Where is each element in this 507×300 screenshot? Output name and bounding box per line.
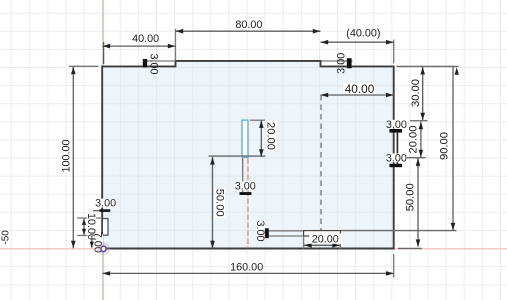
svg-text:40.00: 40.00	[132, 33, 159, 45]
svg-text:3.00: 3.00	[254, 220, 266, 241]
dim 50.00 right: dimension line and arrows	[417, 158, 419, 247]
Y axis (green) upper segment	[102, 0, 104, 66]
dim 90.00: dimension line and arrows	[452, 67, 454, 231]
dim 3.00 bottom hole height: text rotated with mask	[256, 221, 264, 241]
profile filled region	[102, 61, 394, 249]
svg-text:30.00: 30.00	[410, 79, 422, 107]
dim 40.00 inner right: dimension line and arrows	[321, 94, 394, 96]
svg-text:-50: -50	[1, 230, 12, 245]
svg-text:90.00: 90.00	[439, 132, 451, 160]
dim 40.00 top-left: extension lines	[103, 42, 105, 64]
dim 160.00: extension line right	[393, 254, 395, 278]
dim 7.00 below notch: text rotated with mask	[95, 235, 103, 252]
svg-text:3.00: 3.00	[147, 53, 159, 74]
dim 3.00 left step: extension line	[143, 60, 175, 62]
svg-text:20.00: 20.00	[408, 126, 420, 154]
dim 3.00 bottom hole height: tick bar	[265, 228, 269, 238]
dim 50.00 right: extension line	[398, 247, 422, 249]
dim 3.00 notch width: text with mask	[96, 199, 115, 208]
dim 30.00: dimension line and arrows	[422, 67, 424, 121]
svg-text:20.00: 20.00	[265, 122, 277, 150]
dim 100.00 left: extension line	[69, 65, 99, 67]
svg-text:3.00: 3.00	[235, 181, 256, 193]
svg-text:3.00: 3.00	[95, 197, 116, 209]
dim 3.00 right step: tick bar	[347, 58, 352, 68]
dim 3.00 notch width: dimension line and tick bar	[93, 210, 100, 212]
svg-text:3.00: 3.00	[386, 119, 407, 131]
dim 20.00 slot height: extension lines	[250, 119, 265, 121]
dim 7.00 below notch: dimension line and arrow	[91, 236, 93, 248]
dim 90.00: extension lines	[397, 65, 459, 67]
slot (cyan)	[242, 120, 248, 157]
svg-text:160.00: 160.00	[230, 261, 263, 273]
dim 40.00 top-left: dimension line and arrows	[102, 45, 175, 47]
dim 3.00 slot width: text with mask	[236, 181, 255, 190]
construction line vertical dashed (x=321)	[320, 95, 322, 230]
svg-text:3.00: 3.00	[386, 153, 407, 165]
dim 3.00 upper right: text with mask	[387, 120, 406, 129]
dim 3.00 lower right: tick bar	[389, 164, 402, 167]
dim 3.00 lower right: text with mask	[387, 153, 406, 162]
dim 3.00 bottom hole height: extension lines	[269, 230, 303, 232]
svg-text:3.00: 3.00	[336, 53, 348, 74]
dim (40.00) reference: dimension line and arrows	[321, 41, 394, 43]
dim 100.00 left: text rotated with mask	[61, 139, 71, 173]
dim 160.00: dimension line and arrows	[102, 272, 393, 274]
Y axis (green) lower segment	[102, 252, 104, 300]
dim 80.00: dimension line and arrows	[176, 30, 321, 32]
dim 20.00 bottom hole: text with mask	[309, 234, 341, 244]
dim 10.00 notch: dimension line and arrows	[83, 219, 85, 236]
dim 50.00 mid: dimension line and arrows	[212, 157, 214, 249]
dim 3.00 left step: tick bar	[143, 59, 147, 68]
dim 20.00 bottom hole: dimension line and arrows	[304, 244, 340, 246]
svg-text:100.00: 100.00	[61, 139, 73, 172]
right edge tab line	[396, 133, 398, 166]
svg-text:80.00: 80.00	[235, 19, 262, 31]
dim 50.00 mid: text rotated with mask	[215, 188, 225, 218]
origin marker ring	[101, 246, 106, 251]
svg-text:40.00: 40.00	[345, 82, 375, 96]
dim 40.00 inner right: text with mask	[344, 83, 376, 93]
left notch (3x10) cutout	[102, 219, 108, 236]
dim 3.00 right step: extension line	[321, 60, 353, 62]
dim 20.00 right: dimension line and arrows	[420, 122, 422, 158]
dim 30.00: extension line	[410, 120, 428, 122]
svg-text:50.00: 50.00	[404, 183, 416, 211]
dim 20.00 slot height: text rotated with mask	[267, 121, 277, 151]
dim (40.00) reference: extension line	[393, 40, 395, 64]
dim 10.00 notch: text rotated with mask	[87, 215, 95, 239]
X axis (red)	[0, 248, 507, 250]
dim 20.00 slot height: dimension line and arrows	[260, 120, 262, 157]
extension line from slot left edge down	[242, 158, 244, 192]
svg-text:20.00: 20.00	[312, 233, 339, 245]
origin marker halo	[97, 242, 110, 255]
dim 3.00 slot width: tick bar	[240, 192, 252, 195]
dim 20.00 right: extension line	[407, 157, 426, 159]
dim 20.00 right: text rotated with mask	[409, 125, 418, 154]
dim 10.00 notch: extension lines	[77, 217, 102, 219]
bottom hole (20x3) cutout	[304, 231, 341, 236]
dim 100.00 left: dimension line and arrows	[72, 67, 74, 249]
svg-text:50.00: 50.00	[213, 189, 225, 217]
svg-text:(40.00): (40.00)	[346, 28, 380, 40]
construction centerline orange below slot	[247, 158, 249, 248]
dim 3.00 upper right: tick bar	[389, 129, 402, 133]
dim 20.00 bottom hole: extension lines	[303, 236, 305, 249]
